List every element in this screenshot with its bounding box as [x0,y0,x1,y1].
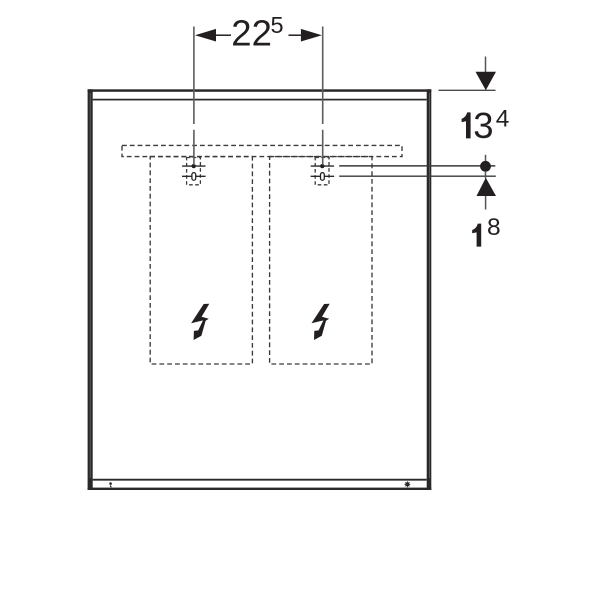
cabinet bottom bar [88,479,432,490]
cabinet top bar [88,89,432,100]
up arrow to lower leader [477,178,497,210]
dimension 22.5 left arrow [195,29,231,42]
leader line upper (drill dot level) [339,165,495,167]
leader line lower (slot level) [339,175,496,177]
cabinet left edge [88,89,93,490]
left extension line [193,27,195,166]
cabinet right edge [427,89,432,490]
dashed left door zone [150,157,252,364]
right extension line [322,27,324,166]
right mounting cross line with dot [311,164,334,168]
dimension text 13 [462,105,494,146]
reference dot on upper leader [480,155,491,179]
dimension text 22 [231,13,272,54]
dashed lamp strip [122,145,402,156]
left lightning bolt [191,304,209,340]
down arrow to top reference [476,57,497,91]
dimension 22.5 right arrow [289,29,322,42]
left mounting bracket dashed box [187,158,201,185]
bottom-right tiny gear icon [405,481,411,487]
right lightning bolt [312,304,330,340]
dashed right door zone [270,157,372,364]
dimension text 1 [472,224,481,247]
right mounting slot line with oval [311,173,335,181]
svg-text:8: 8 [487,214,501,241]
svg-text:22: 22 [231,13,272,54]
left mounting slot line with oval [182,173,206,181]
bottom-left tiny lock icon [109,482,112,487]
svg-text:5: 5 [271,12,284,38]
top reference line at cabinet top level [439,89,496,91]
dimension superscript 4 [496,106,510,133]
svg-text:3: 3 [473,105,493,146]
dimension superscript 5 [271,12,284,38]
left mounting cross line with dot [182,164,205,168]
svg-text:4: 4 [496,106,510,133]
right mounting bracket dashed box [315,158,329,185]
dimension superscript 8 [487,214,501,241]
